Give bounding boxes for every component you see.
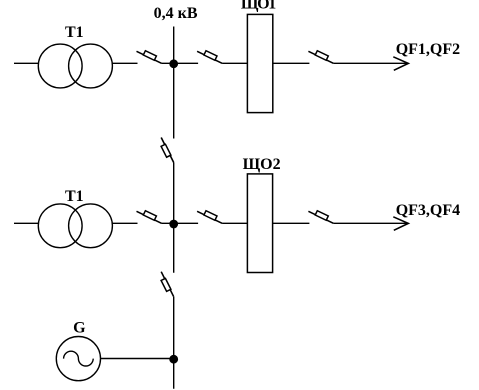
svg-text:QF1,QF2: QF1,QF2: [396, 41, 460, 58]
svg-text:0,4 кВ: 0,4 кВ: [154, 5, 198, 22]
svg-text:ЩО2: ЩО2: [243, 156, 281, 173]
svg-text:Т1: Т1: [65, 188, 84, 205]
svg-text:QF3,QF4: QF3,QF4: [396, 202, 460, 219]
svg-text:G: G: [73, 320, 86, 337]
svg-text:ЩО1: ЩО1: [241, 0, 276, 13]
svg-text:Т1: Т1: [65, 24, 84, 41]
